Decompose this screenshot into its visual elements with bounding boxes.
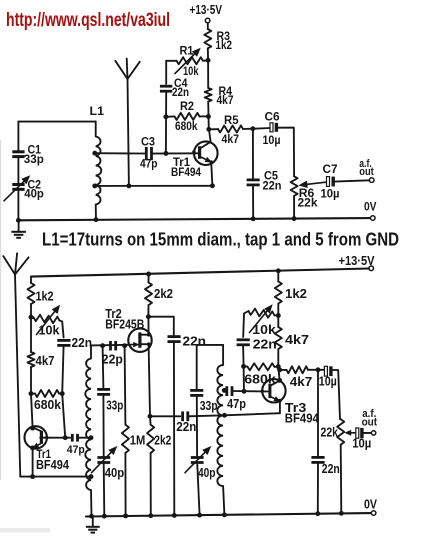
wire C3 to base	[152, 152, 199, 154]
svg-text:10k: 10k	[252, 322, 276, 337]
svg-text:out: out	[359, 166, 374, 178]
capacitor C5 22n	[247, 129, 282, 222]
svg-text:33p: 33p	[200, 398, 218, 413]
svg-text:2k2: 2k2	[154, 432, 171, 447]
wire 47p to coil tap	[77, 437, 91, 439]
wire emitter to tap line	[32, 448, 34, 477]
resistor R1 10k variable	[166, 44, 208, 78]
wire 22n to 680k junction (right)	[242, 345, 245, 366]
capacitor 22n (output filter)	[311, 370, 339, 514]
resistor 4k7 (output)	[280, 366, 324, 389]
ground symbol (bottom circuit)	[86, 516, 100, 532]
svg-text:BF494: BF494	[171, 165, 201, 179]
resistor R5 4k7	[209, 113, 253, 146]
resistor 22k potentiometer (output)	[321, 419, 356, 445]
node Tr3 base bias junction	[242, 389, 247, 394]
svg-text:22n: 22n	[322, 461, 340, 476]
node emitter/tap2 junction	[210, 183, 215, 188]
node 4k7 branch junction	[277, 367, 282, 372]
capacitor 33p (left)	[97, 346, 123, 413]
resistor R3 1k2	[204, 29, 232, 52]
svg-text:BF494: BF494	[285, 410, 320, 425]
wire 1k2 to node	[30, 304, 32, 317]
node coil tap 47p (right)	[222, 388, 227, 393]
svg-text:40p: 40p	[198, 465, 216, 480]
node R6 ground	[292, 216, 297, 221]
wire 4k7 to 680k node (right)	[277, 349, 279, 367]
capacitor 22n (coupling)	[150, 411, 196, 434]
svg-text:L1=17turns on 15mm diam., tap: L1=17turns on 15mm diam., tap 1 and 5 fr…	[42, 230, 399, 250]
svg-text:C6: C6	[265, 110, 280, 124]
svg-text:22k: 22k	[321, 424, 339, 439]
wire tank top (top circuit)	[18, 121, 95, 123]
svg-text:47p: 47p	[227, 396, 246, 411]
wire coupling to tap line	[188, 413, 280, 416]
svg-text:0V: 0V	[364, 199, 377, 213]
node 33p branch junction (left)	[100, 343, 105, 348]
svg-text:22n: 22n	[176, 419, 196, 434]
node 1k2 rail junction (right)	[276, 268, 281, 273]
label a.f. out (bottom circuit)	[362, 408, 378, 428]
inductor L1 coil	[96, 122, 102, 220]
wire node to 4k7 (right)	[277, 316, 279, 328]
resistor 2k2 (top)	[145, 274, 173, 317]
capacitor C6 10u	[253, 110, 281, 147]
wire 680k right to base junction	[62, 394, 65, 438]
node +13.5V supply terminal (bottom circuit)	[339, 254, 376, 271]
svg-text:1k2: 1k2	[36, 289, 54, 304]
node 680k right junction	[276, 364, 281, 369]
svg-text:L1: L1	[90, 104, 105, 118]
node coil bottom (left)	[89, 514, 94, 519]
node collector/R5 junction	[206, 127, 211, 132]
wire C6 to R6 top	[278, 128, 294, 177]
wire +13.5V rail (bottom circuit)	[31, 269, 369, 277]
node 40p ground (right)	[197, 513, 202, 518]
node R3/R1/R4 junction	[206, 58, 211, 63]
node 22k ground	[339, 511, 344, 516]
wire R1 to C4	[165, 61, 167, 84]
label url	[6, 10, 170, 31]
svg-text:4k7: 4k7	[36, 353, 55, 368]
wire C4 to R2/base line	[165, 91, 167, 153]
node coil tap emitter (left)	[89, 474, 94, 479]
resistor 1M	[122, 346, 145, 516]
node L1 tap 1	[92, 151, 97, 156]
label a.f. out (top circuit)	[359, 158, 374, 178]
transistor Tr1 BF494 (bottom circuit)	[25, 426, 70, 472]
resistor 1k2 (right)	[275, 271, 307, 316]
svg-text:+13·5V: +13·5V	[190, 3, 223, 17]
capacitor 22n (drain decoupling)	[148, 317, 206, 516]
node 22n decoupling ground	[172, 513, 177, 518]
node base bias junction	[163, 151, 168, 156]
node R2 left junction	[163, 114, 168, 119]
svg-text:22n: 22n	[172, 85, 189, 99]
capacitor 10u (output coupling 1)	[319, 366, 337, 388]
svg-text:22p: 22p	[102, 352, 123, 367]
node 1M ground	[123, 513, 128, 518]
capacitor 47p (left)	[67, 434, 85, 456]
svg-text:R1: R1	[180, 44, 194, 58]
resistor 1k2 (left)	[28, 283, 54, 304]
wire R4 to collector node	[207, 102, 210, 130]
node source junction	[148, 414, 153, 419]
node 0V terminal (bottom circuit)	[364, 496, 377, 515]
svg-text:4k7: 4k7	[285, 332, 309, 347]
antenna (top circuit)	[115, 59, 140, 186]
node 680k left junction (right)	[241, 364, 246, 369]
svg-text:1k2: 1k2	[285, 286, 307, 301]
wire R3 to node	[207, 48, 209, 60]
node C2 ground junction	[16, 218, 21, 223]
resistor 2k2 (source)	[147, 416, 171, 515]
svg-text:22n: 22n	[253, 337, 277, 352]
resistor R2 680k	[166, 99, 211, 133]
node 0V terminal (top circuit)	[364, 199, 377, 220]
wire 22k to ground	[340, 445, 343, 514]
capacitor 33p (right)	[190, 345, 218, 413]
capacitor 47p (right)	[224, 386, 246, 411]
node coil bottom (right)	[222, 512, 227, 517]
wire node to 4k7 (left)	[30, 317, 32, 352]
wire tap1 to C3	[95, 152, 145, 154]
svg-text:BF494: BF494	[36, 458, 69, 472]
antenna (bottom circuit)	[3, 253, 28, 476]
wire 47p to Tr3 base	[233, 390, 270, 393]
node L1 bottom ground	[94, 217, 99, 222]
node 2k2 drain junction	[146, 314, 151, 319]
node collector junction (Tr1 bottom)	[30, 426, 35, 431]
resistor 4k7 (right vertical)	[275, 327, 309, 349]
svg-text:http://www.qsl.net/va3iul: http://www.qsl.net/va3iul	[6, 10, 170, 31]
wire node to R4	[207, 60, 209, 88]
svg-text:33p: 33p	[24, 152, 44, 166]
svg-text:680k: 680k	[34, 397, 62, 412]
svg-text:680k: 680k	[175, 119, 198, 133]
capacitor 40p variable (left)	[92, 395, 125, 517]
wire emitter down	[211, 162, 212, 186]
svg-text:4k7: 4k7	[290, 374, 313, 389]
capacitor 22p	[102, 341, 123, 367]
capacitor C2 40p variable	[4, 157, 44, 221]
wire 680k junction to base	[243, 366, 245, 391]
svg-text:R2: R2	[180, 99, 194, 113]
wire C7 to a.f. out terminal	[335, 178, 374, 183]
node antenna/tap junction	[126, 183, 131, 188]
wire collector line (Tr1 bottom)	[31, 394, 33, 428]
capacitor 40p variable (right)	[185, 395, 216, 515]
node R5/C6/C5 junction	[250, 126, 255, 131]
wire source down	[149, 344, 150, 416]
node 680k left junction	[29, 391, 34, 396]
node +13.5V supply terminal (top circuit)	[190, 3, 223, 23]
wire 0V rail (bottom circuit)	[86, 513, 371, 516]
svg-text:10µ: 10µ	[352, 436, 371, 451]
capacitor 10u (output coupling 2)	[352, 428, 371, 451]
svg-text:1k2: 1k2	[216, 38, 233, 52]
wire base to 47p	[40, 437, 70, 439]
label L1	[90, 104, 105, 118]
wire rail to 1k2 left	[30, 277, 32, 283]
svg-text:0V: 0V	[364, 496, 377, 511]
node 22n output branch junction	[316, 367, 321, 372]
svg-text:22k: 22k	[298, 195, 318, 209]
wire R6 to 0V rail	[293, 196, 295, 219]
wire 0V rail (top circuit)	[18, 218, 370, 220]
svg-text:47p: 47p	[67, 444, 85, 456]
transistor Tr1 BF494 (top circuit)	[171, 141, 218, 179]
svg-text:40p: 40p	[105, 465, 125, 480]
capacitor C3 47p	[140, 135, 158, 171]
svg-text:out: out	[362, 416, 378, 428]
wire tap2 line	[95, 185, 213, 187]
transistor Tr2 BF245B FET	[105, 306, 151, 352]
wire collector to node	[209, 130, 211, 142]
wire supply to R3	[207, 23, 209, 29]
svg-text:33p: 33p	[106, 398, 123, 413]
inductor coil (right tank)	[197, 345, 225, 515]
wire emitter to tap line (Tr3)	[278, 399, 282, 414]
svg-text:10µ: 10µ	[321, 187, 340, 201]
wire drain to node	[147, 317, 149, 335]
wire 10k to 22n (right)	[242, 314, 245, 338]
svg-text:10k: 10k	[39, 323, 61, 338]
wire antenna/emitter/tap line	[20, 476, 91, 478]
svg-text:22n: 22n	[263, 178, 282, 192]
svg-text:4k7: 4k7	[217, 93, 234, 107]
resistor 10k variable (left)	[31, 306, 62, 338]
node L1 tap 2	[92, 183, 97, 188]
capacitor 22n (left bias)	[57, 335, 92, 350]
svg-text:R5: R5	[224, 113, 239, 127]
wire 10k to 22n (left)	[62, 322, 63, 338]
svg-text:47p: 47p	[140, 156, 158, 170]
resistor R6 22k potentiometer	[291, 176, 326, 209]
ground symbol (top circuit)	[11, 220, 26, 238]
svg-text:22n: 22n	[72, 335, 93, 350]
svg-text:BF245B: BF245B	[105, 316, 144, 331]
node base bias junction (bottom left)	[63, 435, 68, 440]
node 1k2/10k/4k7 junction (right)	[276, 313, 281, 318]
node coil tap 47p (left)	[89, 435, 94, 440]
node emitter junction (Tr1 bottom)	[30, 445, 35, 450]
node 2k2 source ground	[148, 513, 153, 518]
svg-text:2k2: 2k2	[154, 286, 173, 301]
node coil tap coupling (right)	[222, 413, 227, 418]
svg-text:C3: C3	[141, 135, 155, 149]
capacitor C1 33p	[12, 122, 44, 167]
resistor 10k variable (right)	[244, 305, 278, 337]
resistor 680k (left)	[31, 390, 62, 412]
wire gate line	[91, 344, 128, 347]
node 22n filter ground	[315, 511, 320, 516]
node emitter tap junction	[30, 474, 35, 479]
wire 10u to a.f. out terminal	[364, 431, 376, 435]
resistor 680k (right)	[244, 363, 279, 386]
node 1k2/10k/4k7 junction (left)	[29, 315, 34, 320]
node 1M branch junction	[122, 343, 127, 348]
resistor R4 4k7	[205, 84, 234, 107]
svg-text:10µ: 10µ	[319, 373, 337, 388]
node collector junction (Tr3)	[277, 378, 282, 383]
svg-text:4k7: 4k7	[222, 132, 240, 146]
node 40p ground (left)	[102, 514, 107, 519]
capacitor C7 10u	[321, 162, 340, 200]
wire collector line (Tr3)	[278, 367, 279, 381]
inductor coil (left tank)	[85, 346, 91, 517]
capacitor 22n (right bias)	[237, 337, 277, 352]
resistor 4k7 (left)	[28, 352, 55, 368]
svg-text:22n: 22n	[183, 333, 207, 348]
wire 4k7 to 680k node	[30, 367, 32, 394]
svg-text:40p: 40p	[24, 186, 44, 200]
svg-text:1M: 1M	[130, 432, 146, 447]
transistor Tr3 BF494	[261, 379, 320, 425]
svg-text:C7: C7	[323, 162, 338, 176]
node 680k right junction	[60, 391, 65, 396]
wire 22n to 680k junction (left)	[62, 345, 63, 393]
svg-text:10µ: 10µ	[263, 133, 281, 147]
label caption L1 winding note	[42, 230, 399, 250]
node 2k2 rail junction	[146, 272, 151, 277]
capacitor C4 22n	[160, 76, 189, 99]
wire 10u to 22k pot	[333, 370, 340, 419]
